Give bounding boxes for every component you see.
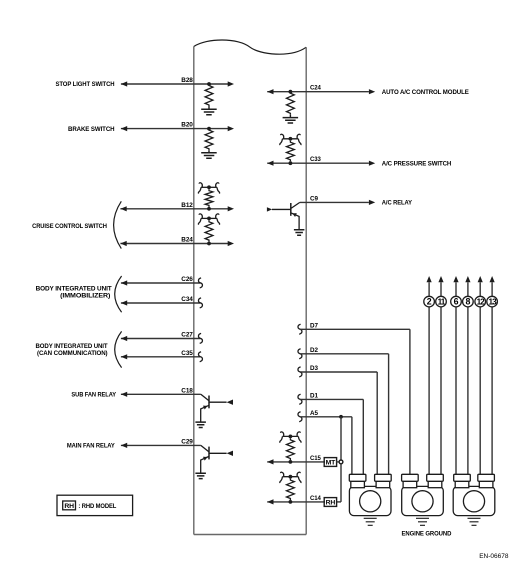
junction dot C33 xyxy=(289,161,293,165)
svg-text:MAIN FAN RELAY: MAIN FAN RELAY xyxy=(67,443,116,450)
svg-text:EN-06678: EN-06678 xyxy=(479,553,509,560)
engine ground assembly 1 xyxy=(349,474,391,515)
svg-text:C26: C26 xyxy=(181,276,193,283)
svg-text:CRUISE CONTROL SWITCH: CRUISE CONTROL SWITCH xyxy=(32,223,107,230)
transistor at C18 with ground xyxy=(195,394,233,427)
wire B24 cruise control switch xyxy=(120,241,234,246)
wire to circle 11 xyxy=(438,276,443,474)
svg-text:D3: D3 xyxy=(310,365,318,372)
svg-text:RH: RH xyxy=(64,503,74,510)
svg-text:D1: D1 xyxy=(310,392,318,399)
junction dot C24 xyxy=(289,90,293,94)
svg-text:: RHD MODEL: : RHD MODEL xyxy=(78,503,116,510)
circled number 12 xyxy=(475,296,486,307)
hook symbol C27 xyxy=(198,333,202,343)
wire to circle 2 xyxy=(427,276,432,474)
svg-text:C33: C33 xyxy=(310,156,321,163)
node to other circuits above C33 xyxy=(280,134,301,145)
svg-text:BODY INTEGRATED UNIT: BODY INTEGRATED UNIT xyxy=(36,343,108,350)
svg-text:C27: C27 xyxy=(181,332,193,339)
wire B12 cruise control switch xyxy=(120,206,234,211)
junction dot B12 xyxy=(207,207,211,211)
junction dot A5 xyxy=(339,415,343,419)
engine ground assembly 3 xyxy=(453,474,495,515)
svg-text:B20: B20 xyxy=(181,122,193,129)
hook symbol C35 xyxy=(198,352,202,362)
svg-text:B12: B12 xyxy=(181,202,193,209)
wire to circle 12 xyxy=(478,276,483,474)
circled number 8 xyxy=(463,296,474,307)
wire C35 xyxy=(121,354,200,359)
svg-text:6: 6 xyxy=(454,297,459,307)
svg-text:B28: B28 xyxy=(181,77,193,84)
hook symbol C34 xyxy=(198,298,202,308)
hook symbol C26 xyxy=(198,278,202,288)
hook symbol A5 xyxy=(298,412,302,422)
wire C27 xyxy=(121,336,200,341)
svg-text:C18: C18 xyxy=(181,387,193,394)
wire C26 xyxy=(121,280,200,285)
svg-text:(CAN COMMUNICATION): (CAN COMMUNICATION) xyxy=(37,350,108,357)
resistor above B12 xyxy=(205,189,213,207)
ground below B28 resistor xyxy=(208,107,210,110)
wire C18 sub fan relay xyxy=(121,392,201,397)
circled number 2 xyxy=(424,296,435,307)
svg-text:C34: C34 xyxy=(181,296,193,303)
svg-text:D7: D7 xyxy=(310,322,318,329)
wire to circle 8 xyxy=(465,276,470,474)
label BODY INTEGRATED UNIT (IMMOBILIZER) xyxy=(36,286,112,300)
svg-text:B24: B24 xyxy=(181,237,193,244)
resistor at B28 xyxy=(205,84,213,107)
svg-text:C9: C9 xyxy=(310,195,318,202)
resistor at B20 xyxy=(205,129,213,151)
svg-text:STOP LIGHT SWITCH: STOP LIGHT SWITCH xyxy=(56,81,115,88)
hook symbol D7 xyxy=(298,324,302,334)
wire A5 to engine ground xyxy=(300,417,352,475)
svg-text:C24: C24 xyxy=(310,85,321,92)
wire C9 A/C relay xyxy=(300,200,375,205)
wire D3 to engine ground xyxy=(300,372,377,474)
svg-text:ENGINE GROUND: ENGINE GROUND xyxy=(402,530,452,537)
resistor above C14 xyxy=(287,479,295,500)
ground below C24 resistor xyxy=(289,115,291,118)
svg-text:D2: D2 xyxy=(310,347,318,354)
svg-text:C15: C15 xyxy=(310,455,321,462)
junction dot C15 xyxy=(289,460,293,464)
svg-text:BRAKE SWITCH: BRAKE SWITCH xyxy=(68,126,115,133)
hook symbol D2 xyxy=(298,349,302,359)
svg-text:C14: C14 xyxy=(310,495,321,502)
circled number 13 xyxy=(487,296,498,307)
svg-text:A/C PRESSURE SWITCH: A/C PRESSURE SWITCH xyxy=(382,160,452,167)
resistor above C33 xyxy=(287,141,295,162)
wire C14 xyxy=(267,499,325,504)
junction dot C14 xyxy=(289,500,293,504)
wire to circle 13 xyxy=(490,276,495,474)
node to other circuits above B24 xyxy=(198,214,219,225)
hook symbol D1 xyxy=(298,394,302,404)
MT option box xyxy=(324,458,336,467)
wire to circle 6 xyxy=(453,276,458,474)
svg-text:C35: C35 xyxy=(181,350,193,357)
bracket body integrated unit immobilizer xyxy=(115,276,122,312)
option connector circle xyxy=(339,460,343,464)
node to other circuits above C14 xyxy=(280,472,301,483)
RH option box xyxy=(324,498,336,507)
svg-text:SUB FAN RELAY: SUB FAN RELAY xyxy=(71,392,116,399)
wire C29 main fan relay xyxy=(121,443,201,448)
wire C15 xyxy=(267,459,325,464)
wire D1 to engine ground xyxy=(300,399,363,474)
ground below B20 resistor xyxy=(208,150,210,153)
wire C33 A/C pressure switch xyxy=(267,161,375,166)
bracket body integrated unit can communication xyxy=(115,331,122,367)
bracket cruise control switch xyxy=(114,201,122,248)
resistor above C15 xyxy=(287,438,295,460)
wire B20 brake switch xyxy=(121,126,234,131)
svg-text:BODY INTEGRATED UNIT: BODY INTEGRATED UNIT xyxy=(36,286,112,293)
junction dot B24 xyxy=(207,242,211,246)
legend box RH RHD model xyxy=(57,495,133,515)
svg-text:2: 2 xyxy=(427,297,432,307)
transistor at C29 with ground xyxy=(195,445,233,478)
svg-text:(IMMOBILIZER): (IMMOBILIZER) xyxy=(60,293,110,300)
svg-text:A/C RELAY: A/C RELAY xyxy=(382,200,413,207)
wire B28 stop light switch xyxy=(121,81,234,86)
svg-text:8: 8 xyxy=(466,297,471,307)
wire A5 branch down to option circle xyxy=(340,417,342,461)
svg-text:AUTO A/C CONTROL MODULE: AUTO A/C CONTROL MODULE xyxy=(382,89,470,96)
ECM unit box outline xyxy=(194,40,306,535)
svg-text:MT: MT xyxy=(326,459,336,466)
label BODY INTEGRATED UNIT (CAN COMMUNICATION) xyxy=(36,343,108,357)
wire D7 to engine ground xyxy=(300,329,410,474)
resistor above B24 xyxy=(205,220,213,241)
wire D2 to engine ground xyxy=(300,354,389,475)
engine ground assembly 2 xyxy=(402,474,444,515)
node to other circuits above B12 xyxy=(198,183,219,194)
junction dot B20 xyxy=(207,127,211,131)
svg-text:C29: C29 xyxy=(181,438,193,445)
resistor below C24 xyxy=(287,92,295,115)
circled number 11 xyxy=(436,296,447,307)
junction dot B28 xyxy=(207,82,211,86)
svg-text:A5: A5 xyxy=(310,410,318,417)
node to other circuits above C15 xyxy=(280,432,301,443)
hook symbol D3 xyxy=(298,367,302,377)
wire C34 xyxy=(121,300,200,305)
circled number 6 xyxy=(451,296,462,307)
transistor at C9 with ground xyxy=(267,202,305,235)
svg-text:RH: RH xyxy=(326,499,336,506)
wire option circle down to C14 row xyxy=(336,464,341,502)
wire C24 auto A/C control module xyxy=(267,89,375,94)
wire MT box to option circle xyxy=(336,461,339,463)
